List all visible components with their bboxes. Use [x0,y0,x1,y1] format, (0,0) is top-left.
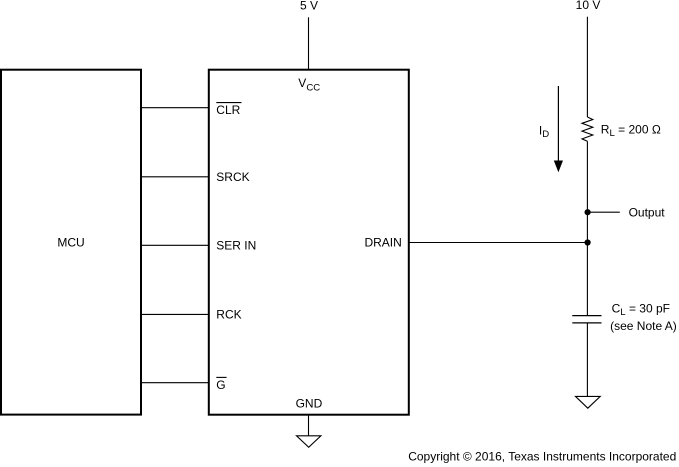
svg-text:CL = 30 pF: CL = 30 pF [612,301,670,318]
svg-text:RL = 200 Ω: RL = 200 Ω [601,122,661,139]
svg-text:(see Note A): (see Note A) [610,319,677,333]
MCU block [1,70,141,415]
wire junction node to capacitor CL [586,243,588,316]
capacitor CL [572,316,601,323]
svg-text:CLR: CLR [216,103,240,117]
svg-text:G: G [216,378,225,392]
wire SRCK (MCU to SRCK pin) [141,176,209,178]
svg-text:RCK: RCK [216,308,241,322]
wire DRAIN to junction node [409,242,588,244]
wire SER IN (MCU to SER IN pin) [141,244,209,246]
current arrow ID [554,86,563,172]
wire resistor RL to output node [586,141,588,242]
junction node (DRAIN / RL / CL) [585,239,591,245]
wire G (MCU to G pin) [141,382,209,384]
pin G (with overbar) [216,377,226,392]
svg-text:VCC: VCC [298,76,320,93]
resistor RL [582,117,593,141]
svg-text:DRAIN: DRAIN [364,236,401,250]
wire output stub [587,211,620,213]
shift register block (device) [209,70,409,415]
node Output (junction dot) [585,209,591,215]
wire 10V supply to resistor RL [586,17,588,117]
wire CLR (MCU to CLR pin) [141,107,209,109]
svg-text:ID: ID [539,123,549,140]
ground (GND pin) [297,436,321,448]
wire 5V supply to VCC pin [308,17,310,69]
wire RCK (MCU to RCK pin) [141,313,209,315]
pin CLR (with overbar) [216,103,241,117]
svg-text:SRCK: SRCK [216,170,249,184]
svg-text:5 V: 5 V [300,0,318,12]
svg-text:SER IN: SER IN [216,239,256,253]
svg-text:Output: Output [629,205,666,219]
ground (CL) [576,396,601,408]
wire capacitor CL to ground [586,323,588,397]
svg-text:10 V: 10 V [576,0,601,12]
svg-text:GND: GND [296,397,323,411]
wire GND pin to ground [308,415,310,436]
svg-text:Copyright © 2016, Texas Instru: Copyright © 2016, Texas Instruments Inco… [408,450,676,464]
svg-text:MCU: MCU [57,236,84,250]
